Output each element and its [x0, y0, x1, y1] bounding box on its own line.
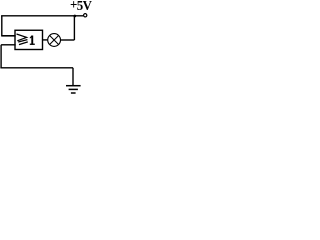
gate label digit 1	[30, 36, 35, 45]
indicator lamp H1 circle	[48, 34, 61, 47]
gate function symbol >= (chevron of DIN "greater-equal")	[17, 34, 27, 41]
wire +5V top rail horizontal	[1, 15, 83, 17]
wire gate input 2	[1, 44, 16, 46]
wire gate output stub	[43, 39, 48, 41]
ground earth bar 1	[66, 85, 81, 87]
lamp X diagonal stroke 2	[50, 35, 59, 44]
wire left vertical from input 2 down to ground rail	[0, 45, 2, 68]
wire left vertical from +5V rail to input 1	[1, 16, 3, 36]
ground earth bar 3	[71, 92, 76, 94]
wire lamp to +5V vertical riser horizontal run	[61, 39, 75, 41]
wire vertical from ground rail down to earth symbol	[72, 68, 74, 85]
+5V open supply terminal circle	[84, 14, 87, 17]
gate function symbol upper equal bar	[18, 40, 27, 42]
lamp X diagonal stroke 1	[50, 35, 59, 44]
junction dot at +5V rail node	[73, 15, 76, 18]
ground earth bar 2	[69, 88, 78, 90]
OR gate U1 body (DIN symbol box)	[15, 30, 43, 49]
gate function symbol lower equal bar	[19, 42, 28, 45]
wire vertical riser from lamp wire up to +5V junction	[73, 16, 75, 40]
wire bottom ground rail horizontal	[0, 67, 73, 69]
wire gate input 1	[1, 35, 16, 37]
net label +5V	[70, 0, 91, 15]
